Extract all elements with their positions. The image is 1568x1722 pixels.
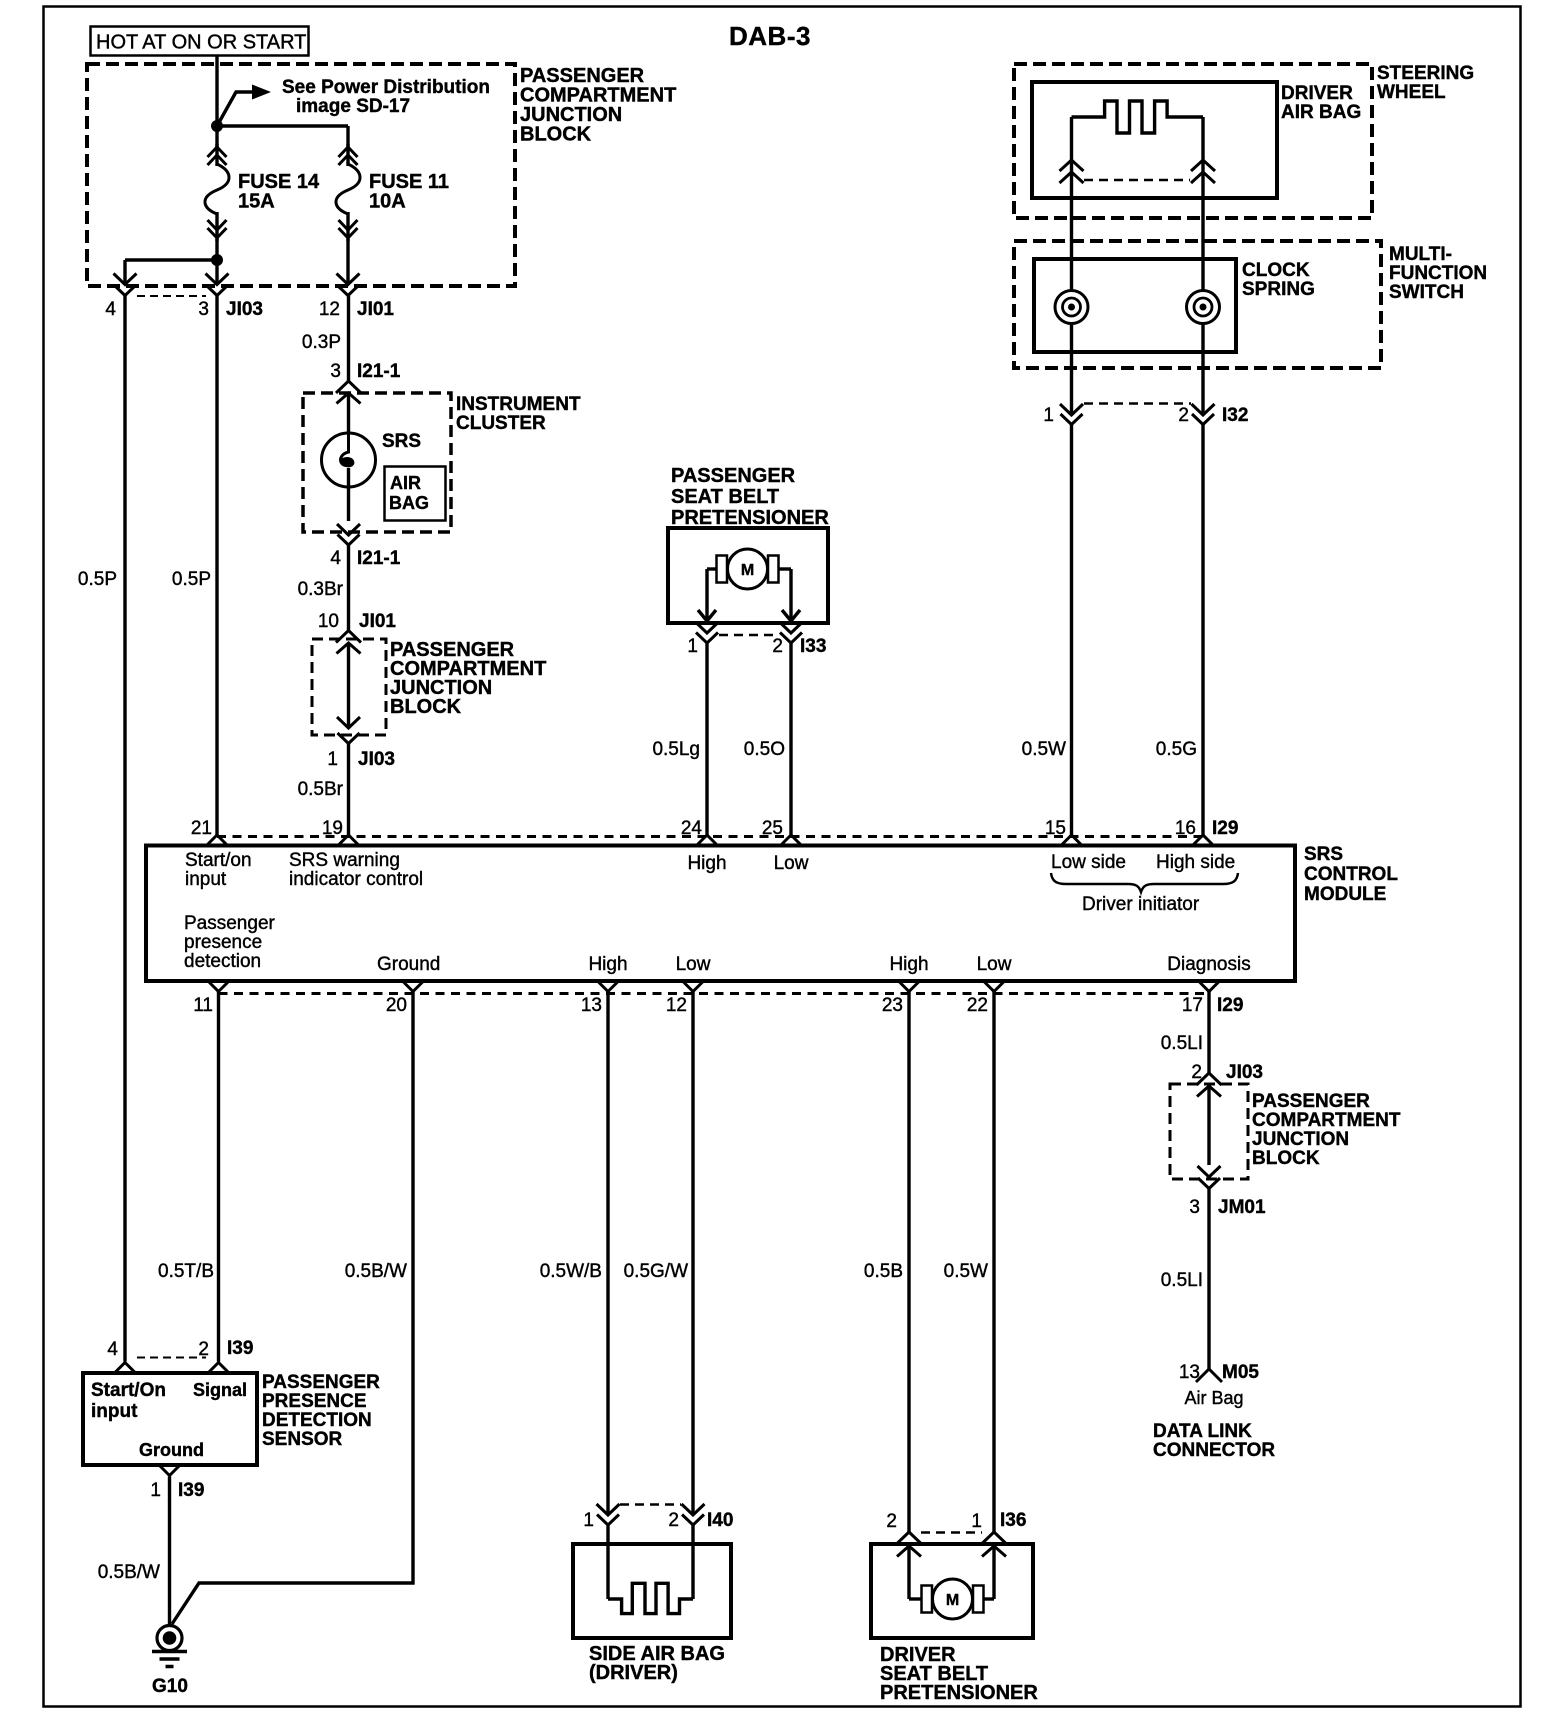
svg-text:image SD-17: image SD-17 <box>296 96 410 117</box>
svg-text:2: 2 <box>198 1339 209 1360</box>
svg-text:10: 10 <box>318 611 339 632</box>
svg-text:0.5G: 0.5G <box>1156 739 1197 760</box>
svg-text:High: High <box>687 853 726 874</box>
svg-text:4: 4 <box>107 1339 118 1360</box>
svg-text:0.3Br: 0.3Br <box>298 579 344 600</box>
svg-text:PASSENGER: PASSENGER <box>262 1372 380 1393</box>
svg-text:High side: High side <box>1156 852 1235 873</box>
svg-text:High: High <box>889 954 928 975</box>
svg-text:0.5B: 0.5B <box>864 1261 903 1282</box>
svg-text:0.5LI: 0.5LI <box>1161 1270 1203 1291</box>
svg-text:I33: I33 <box>800 636 826 657</box>
svg-text:Low: Low <box>977 954 1012 975</box>
svg-text:Low side: Low side <box>1051 852 1126 873</box>
svg-text:MODULE: MODULE <box>1304 884 1386 905</box>
svg-text:0.5W: 0.5W <box>1022 739 1066 760</box>
svg-text:I39: I39 <box>178 1480 204 1501</box>
svg-text:JI03: JI03 <box>358 749 395 770</box>
svg-text:0.5O: 0.5O <box>744 739 785 760</box>
svg-text:SRS warning: SRS warning <box>289 850 400 871</box>
svg-text:3: 3 <box>1189 1197 1200 1218</box>
svg-text:11: 11 <box>193 995 213 1016</box>
svg-text:detection: detection <box>184 951 261 972</box>
svg-text:Start/on: Start/on <box>185 850 252 871</box>
svg-text:0.5W: 0.5W <box>944 1261 988 1282</box>
svg-text:M: M <box>741 562 754 579</box>
svg-text:I36: I36 <box>1000 1510 1026 1531</box>
svg-text:12: 12 <box>666 995 687 1016</box>
svg-text:JUNCTION: JUNCTION <box>1252 1129 1349 1150</box>
svg-text:0.5W/B: 0.5W/B <box>540 1261 602 1282</box>
svg-text:PASSENGER: PASSENGER <box>1252 1091 1370 1112</box>
svg-text:0.5LI: 0.5LI <box>1161 1033 1203 1054</box>
svg-text:Start/On: Start/On <box>91 1380 166 1401</box>
svg-text:0.5B/W: 0.5B/W <box>98 1562 160 1583</box>
svg-text:JM01: JM01 <box>1218 1197 1266 1218</box>
svg-text:1: 1 <box>971 1511 982 1532</box>
svg-text:Driver initiator: Driver initiator <box>1082 894 1200 915</box>
svg-text:SRS: SRS <box>382 431 421 452</box>
svg-text:High: High <box>588 954 627 975</box>
svg-text:19: 19 <box>322 818 343 839</box>
svg-text:Low: Low <box>774 853 809 874</box>
svg-text:BLOCK: BLOCK <box>390 696 462 718</box>
svg-text:BLOCK: BLOCK <box>1252 1148 1320 1169</box>
svg-text:(DRIVER): (DRIVER) <box>589 1662 678 1684</box>
svg-text:1: 1 <box>687 636 698 657</box>
svg-text:4: 4 <box>105 299 116 320</box>
svg-text:25: 25 <box>762 818 783 839</box>
svg-text:PASSENGER: PASSENGER <box>671 465 796 487</box>
svg-text:BAG: BAG <box>389 493 429 513</box>
svg-text:Low: Low <box>676 954 711 975</box>
svg-text:JI01: JI01 <box>357 299 394 320</box>
svg-text:13: 13 <box>581 995 602 1016</box>
svg-text:3: 3 <box>330 361 341 382</box>
svg-text:12: 12 <box>319 299 340 320</box>
svg-text:SENSOR: SENSOR <box>262 1429 343 1450</box>
svg-text:0.5G/W: 0.5G/W <box>624 1261 688 1282</box>
svg-text:17: 17 <box>1182 995 1203 1016</box>
svg-text:Diagnosis: Diagnosis <box>1167 954 1250 975</box>
svg-text:WHEEL: WHEEL <box>1377 82 1446 103</box>
svg-text:20: 20 <box>386 995 407 1016</box>
svg-text:See Power Distribution: See Power Distribution <box>282 77 490 98</box>
svg-text:Ground: Ground <box>377 954 440 975</box>
svg-text:4: 4 <box>330 548 341 569</box>
svg-text:CONNECTOR: CONNECTOR <box>1153 1440 1275 1461</box>
svg-text:input: input <box>185 869 227 890</box>
svg-text:24: 24 <box>681 818 703 839</box>
svg-text:PRETENSIONER: PRETENSIONER <box>880 1682 1038 1704</box>
svg-text:21: 21 <box>191 818 212 839</box>
svg-text:indicator control: indicator control <box>289 869 423 890</box>
svg-text:0.5T/B: 0.5T/B <box>158 1261 214 1282</box>
svg-text:SPRING: SPRING <box>1242 279 1315 300</box>
svg-text:Ground: Ground <box>139 1440 204 1460</box>
svg-text:DETECTION: DETECTION <box>262 1410 372 1431</box>
svg-text:CONTROL: CONTROL <box>1304 864 1398 885</box>
svg-text:AIR: AIR <box>390 473 421 493</box>
svg-text:DRIVER: DRIVER <box>1281 83 1353 104</box>
svg-text:DAB-3: DAB-3 <box>729 21 811 51</box>
svg-text:AIR BAG: AIR BAG <box>1281 102 1361 123</box>
svg-text:I40: I40 <box>707 1510 733 1531</box>
svg-text:0.5P: 0.5P <box>172 569 211 590</box>
svg-text:1: 1 <box>1043 405 1054 426</box>
svg-text:JI01: JI01 <box>359 611 396 632</box>
svg-text:MULTI-: MULTI- <box>1389 244 1452 265</box>
svg-text:0.5P: 0.5P <box>78 569 117 590</box>
svg-text:INSTRUMENT: INSTRUMENT <box>456 394 581 415</box>
svg-text:I32: I32 <box>1222 405 1248 426</box>
svg-text:15: 15 <box>1045 818 1066 839</box>
svg-text:2: 2 <box>772 636 783 657</box>
svg-text:HOT AT ON OR START: HOT AT ON OR START <box>96 32 306 54</box>
svg-text:1: 1 <box>150 1480 161 1501</box>
svg-text:JI03: JI03 <box>226 299 263 320</box>
svg-text:I21-1: I21-1 <box>357 361 401 382</box>
svg-text:M05: M05 <box>1222 1362 1259 1383</box>
svg-text:BLOCK: BLOCK <box>520 124 592 146</box>
svg-text:DATA LINK: DATA LINK <box>1153 1421 1252 1442</box>
svg-text:2: 2 <box>886 1511 897 1532</box>
svg-text:Signal: Signal <box>193 1380 247 1400</box>
svg-text:Passenger: Passenger <box>184 913 276 934</box>
svg-text:PRESENCE: PRESENCE <box>262 1391 367 1412</box>
svg-text:SEAT BELT: SEAT BELT <box>671 486 779 508</box>
svg-text:CLUSTER: CLUSTER <box>456 413 546 434</box>
svg-text:0.5Br: 0.5Br <box>298 779 344 800</box>
svg-text:JI03: JI03 <box>1226 1062 1263 1083</box>
svg-text:SRS: SRS <box>1304 844 1343 865</box>
svg-text:SWITCH: SWITCH <box>1389 282 1464 303</box>
svg-text:STEERING: STEERING <box>1377 63 1474 84</box>
svg-text:15A: 15A <box>238 191 275 213</box>
svg-text:3: 3 <box>198 299 209 320</box>
svg-text:2: 2 <box>668 1510 679 1531</box>
svg-text:I21-1: I21-1 <box>357 548 401 569</box>
svg-text:M: M <box>946 1592 959 1609</box>
svg-text:Air Bag: Air Bag <box>1184 1388 1243 1408</box>
svg-text:22: 22 <box>967 995 988 1016</box>
svg-text:1: 1 <box>583 1510 594 1531</box>
svg-text:I29: I29 <box>1212 818 1238 839</box>
svg-text:PRETENSIONER: PRETENSIONER <box>671 507 829 529</box>
svg-text:0.5Lg: 0.5Lg <box>652 739 700 760</box>
svg-text:0.5B/W: 0.5B/W <box>345 1261 407 1282</box>
svg-text:23: 23 <box>882 995 903 1016</box>
svg-text:16: 16 <box>1175 818 1196 839</box>
svg-text:1: 1 <box>327 749 338 770</box>
svg-text:presence: presence <box>184 932 262 953</box>
svg-text:FUNCTION: FUNCTION <box>1389 263 1487 284</box>
svg-text:I29: I29 <box>1217 995 1243 1016</box>
svg-text:I39: I39 <box>227 1338 253 1359</box>
svg-text:input: input <box>91 1401 138 1422</box>
svg-text:CLOCK: CLOCK <box>1242 260 1310 281</box>
svg-text:COMPARTMENT: COMPARTMENT <box>1252 1110 1401 1131</box>
svg-text:G10: G10 <box>152 1676 188 1697</box>
svg-text:2: 2 <box>1178 405 1189 426</box>
svg-text:10A: 10A <box>369 191 406 213</box>
svg-text:0.3P: 0.3P <box>302 332 341 353</box>
